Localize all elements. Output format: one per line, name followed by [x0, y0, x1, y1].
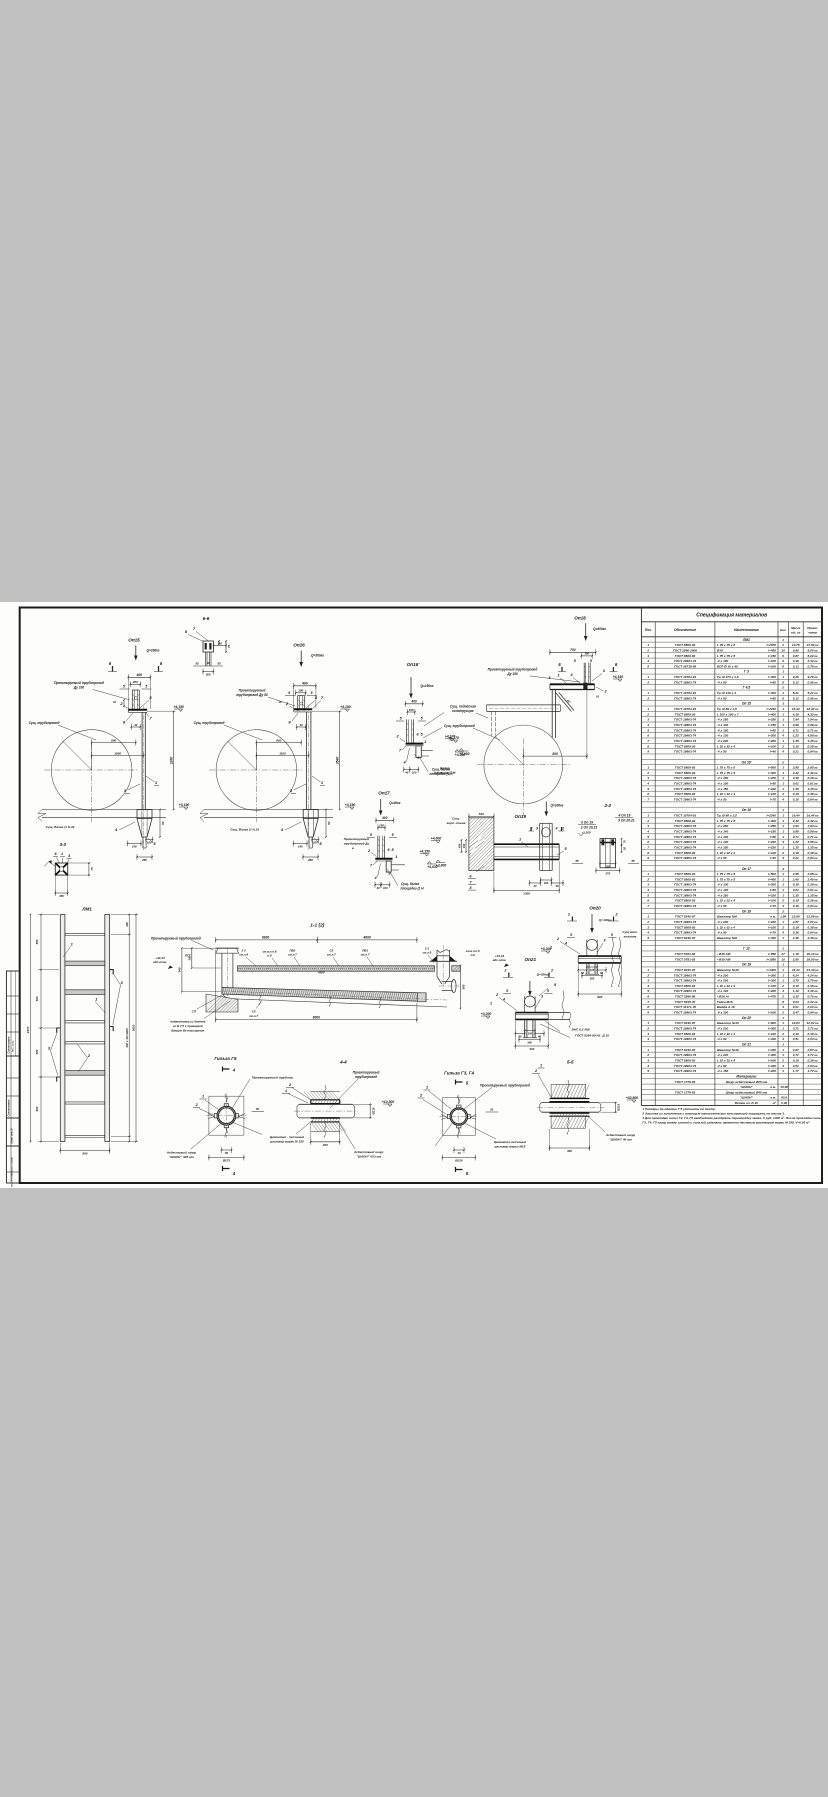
svg-text:Оп16: Оп16 — [293, 643, 305, 648]
svg-text:2: 2 — [495, 993, 498, 997]
svg-text:3: 3 — [647, 718, 649, 722]
svg-text:40: 40 — [375, 886, 380, 890]
svg-text:270: 270 — [604, 872, 610, 876]
svg-text:-6 x 100: -6 x 100 — [717, 1011, 729, 1015]
svg-text:75: 75 — [90, 867, 94, 871]
svg-text:2: 2 — [646, 973, 649, 977]
svg-text:2,95: 2,95 — [792, 872, 799, 876]
1-1 right riser with tee and cap — [436, 950, 438, 977]
Op19 beam channel — [494, 843, 559, 845]
svg-text:1,35 кг: 1,35 кг — [808, 739, 818, 743]
svg-text:l=250: l=250 — [768, 824, 776, 828]
svg-text:500: 500 — [35, 996, 39, 1001]
svg-text:Ø219: Ø219 — [617, 1104, 621, 1111]
svg-text:ГОСТ 19903-74: ГОСТ 19903-74 — [674, 776, 696, 780]
svg-text:Поз.: Поз. — [645, 628, 652, 632]
svg-text:29,00 кг: 29,00 кг — [806, 957, 819, 961]
svg-text:ГОСТ 19903-74: ГОСТ 19903-74 — [674, 798, 696, 802]
svg-text:L 32 x 32 x 4: L 32 x 32 x 4 — [717, 1058, 735, 1062]
svg-text:Q=600кг: Q=600кг — [593, 627, 606, 631]
svg-text:Оп 20: Оп 20 — [742, 1016, 751, 1020]
Op16 pipe stub and cap — [297, 696, 299, 710]
svg-text:4: 4 — [555, 827, 558, 831]
svg-text:Гильза Г3, Г4: Гильза Г3, Г4 — [444, 1071, 474, 1076]
svg-text:4,24 кг: 4,24 кг — [807, 973, 818, 977]
svg-text:0,19: 0,19 — [793, 851, 799, 855]
svg-text:1,54: 1,54 — [780, 915, 786, 919]
svg-text:40: 40 — [533, 884, 537, 888]
svg-text:ГОСТ 8509-93: ГОСТ 8509-93 — [675, 851, 696, 855]
svg-text:3 Оп 20,21: 3 Оп 20,21 — [618, 819, 635, 823]
svg-text:1: 1 — [647, 968, 649, 972]
svg-text:L 32 x 32 x 4: L 32 x 32 x 4 — [717, 899, 735, 903]
svg-text:ГОСТ 8509-93: ГОСТ 8509-93 — [675, 792, 696, 796]
svg-text:1: 1 — [395, 855, 397, 859]
svg-text:l=1300: l=1300 — [766, 968, 776, 972]
svg-text:2,90: 2,90 — [792, 957, 799, 961]
svg-text:4: 4 — [646, 931, 649, 935]
svg-text:3 Для прокладки гильз Г3, Г4,: 3 Для прокладки гильз Г3, Г4, Г5 необход… — [642, 1116, 822, 1120]
svg-text:ГОСТ 8240-97: ГОСТ 8240-97 — [675, 915, 696, 919]
svg-text:2: 2 — [646, 696, 649, 700]
svg-text:l=800: l=800 — [768, 1021, 776, 1025]
svg-text:8: 8 — [782, 680, 784, 684]
svg-text:ГОСТ 2590-88: ГОСТ 2590-88 — [675, 995, 696, 999]
svg-text:650: 650 — [35, 1106, 39, 1111]
svg-text:1: 1 — [647, 675, 649, 679]
svg-text:0,39: 0,39 — [793, 776, 799, 780]
svg-text:1: 1 — [782, 973, 784, 977]
svg-text:Ø219: Ø219 — [455, 1159, 463, 1163]
svg-text:ГОСТ 5264-80-Н1- Д 10: ГОСТ 5264-80-Н1- Д 10 — [575, 1034, 609, 1038]
svg-text:-4 x 200: -4 x 200 — [717, 973, 729, 977]
svg-text:-4 x 100: -4 x 100 — [717, 835, 729, 839]
svg-text:2,40 кг: 2,40 кг — [807, 819, 818, 823]
svg-text:200: 200 — [132, 680, 138, 684]
svg-text:Тр. Ø 89 x 3,5: Тр. Ø 89 x 3,5 — [717, 814, 737, 818]
svg-text:ГОСТ 19903-74: ГОСТ 19903-74 — [674, 829, 696, 833]
svg-text:Вакуум Во насыщения: Вакуум Во насыщения — [171, 1028, 204, 1032]
svg-text:2,87 кг: 2,87 кг — [807, 1048, 818, 1052]
svg-text:2260: 2260 — [169, 757, 173, 766]
svg-text:4: 4 — [646, 723, 649, 727]
svg-text:3: 3 — [647, 979, 649, 983]
svg-text:l=500: l=500 — [768, 872, 776, 876]
G3G4 section flag top — [456, 1080, 463, 1085]
svg-text:L 32 x 32 x 4: L 32 x 32 x 4 — [717, 744, 735, 748]
svg-text:2: 2 — [781, 995, 784, 999]
svg-text:+4,000: +4,000 — [431, 836, 442, 840]
svg-text:2: 2 — [781, 643, 784, 647]
svg-text:Ø18: Ø18 — [717, 648, 723, 652]
1-1 bottom dim — [216, 1019, 417, 1021]
Op18 beam — [550, 683, 595, 685]
svg-text:-4 x 100: -4 x 100 — [717, 659, 729, 663]
svg-text:ГОСТ 19903-74: ГОСТ 19903-74 — [674, 840, 696, 844]
svg-text:ГОСТ 8240-97: ГОСТ 8240-97 — [675, 936, 696, 940]
svg-text:0,19: 0,19 — [793, 899, 799, 903]
svg-text:1: 1 — [782, 712, 784, 716]
view Op16' bracket support — [396, 662, 466, 776]
svg-text:Швеллер №16: Швеллер №16 — [717, 1048, 739, 1052]
svg-text:0,32 кг: 0,32 кг — [808, 1000, 818, 1004]
svg-text:см.л.9: см.л.9 — [423, 951, 432, 955]
svg-text:4: 4 — [781, 734, 784, 738]
svg-text:Проектируемый: Проектируемый — [239, 689, 266, 693]
svg-text:ГОСТ 8240-97: ГОСТ 8240-97 — [675, 1048, 696, 1052]
svg-text:Q=200кг: Q=200кг — [147, 649, 160, 653]
svg-text:Асбестовый шнур: Асбестовый шнур — [166, 1151, 196, 1155]
1-1 lower sloped pipe — [222, 988, 426, 1002]
svg-text:2,07 кг: 2,07 кг — [807, 920, 818, 924]
svg-text:1: 1 — [782, 1048, 784, 1052]
section 1-1 long pipe run — [151, 922, 480, 1032]
svg-text:ГОСТ 19903-74: ГОСТ 19903-74 — [674, 723, 696, 727]
svg-text:12,89 кг: 12,89 кг — [807, 915, 819, 919]
svg-text:l=200: l=200 — [768, 734, 776, 738]
svg-text:0,99: 0,99 — [793, 723, 799, 727]
svg-text:16,44: 16,44 — [792, 814, 800, 818]
svg-text:Масса: Масса — [791, 626, 801, 630]
svg-text:Оп20: Оп20 — [589, 906, 601, 911]
svg-text:400: 400 — [301, 682, 308, 686]
svg-text:l=100: l=100 — [768, 1032, 776, 1036]
svg-text:3: 3 — [647, 1032, 649, 1036]
svg-text:8000: 8000 — [313, 1015, 321, 1019]
svg-text:l=400: l=400 — [768, 819, 776, 823]
svg-text:ед., кг: ед., кг — [791, 631, 801, 635]
svg-text:-4 x 150: -4 x 150 — [717, 787, 729, 791]
svg-text:+3,190: +3,190 — [179, 803, 190, 807]
svg-text:ГОСТ 8509-93: ГОСТ 8509-93 — [675, 872, 696, 876]
svg-text:l=100: l=100 — [768, 1011, 776, 1015]
svg-text:16,44 кг: 16,44 кг — [807, 814, 819, 818]
svg-text:ГОСТ 10704-91: ГОСТ 10704-91 — [674, 691, 696, 695]
svg-text:Ø219: Ø219 — [371, 1107, 375, 1114]
svg-text:ГОСТ 8509-93: ГОСТ 8509-93 — [675, 744, 696, 748]
svg-text:-4 x 130: -4 x 130 — [717, 840, 729, 844]
svg-text:ГОСТ 8240-97: ГОСТ 8240-97 — [675, 968, 696, 972]
svg-text:3540: 3540 — [335, 757, 339, 765]
svg-text:кл В 7,5 с приваркой: кл В 7,5 с приваркой — [173, 1024, 203, 1028]
svg-text:Г 4,5: Г 4,5 — [743, 686, 751, 690]
svg-text:Ø273: Ø273 — [223, 1159, 231, 1163]
svg-text:4,30 кг: 4,30 кг — [807, 712, 818, 716]
svg-text:Q=200кг: Q=200кг — [551, 804, 564, 808]
svg-text:ГОСТ 1779-83: ГОСТ 1779-83 — [675, 1090, 696, 1094]
svg-text:Оп15: Оп15 — [128, 638, 140, 643]
svg-text:-4 x 220: -4 x 220 — [717, 979, 729, 983]
svg-text:1: 1 — [426, 1086, 428, 1090]
svg-text:8: 8 — [647, 1005, 649, 1009]
svg-text:0,39: 0,39 — [793, 883, 799, 887]
svg-text:10: 10 — [781, 648, 785, 652]
svg-text:-4 x 50: -4 x 50 — [717, 856, 727, 860]
svg-text:250: 250 — [141, 858, 147, 862]
svg-text:1,77 кг: 1,77 кг — [808, 1069, 818, 1073]
svg-text:l=400: l=400 — [768, 712, 776, 716]
svg-text:l=100: l=100 — [768, 851, 776, 855]
svg-text:0,71 кг: 0,71 кг — [808, 728, 818, 732]
svg-text:0,99 кг: 0,99 кг — [808, 723, 818, 727]
svg-text:Швеллер №8: Швеллер №8 — [717, 936, 737, 940]
svg-text:1: 1 — [782, 835, 784, 839]
svg-text:1: 1 — [782, 707, 784, 711]
svg-text:560: 560 — [462, 984, 466, 989]
svg-text:см.л.7: см.л.7 — [249, 1014, 258, 1018]
svg-text:l=100: l=100 — [768, 1058, 776, 1062]
svg-text:0,71: 0,71 — [793, 835, 799, 839]
svg-text:3-3: 3-3 — [59, 842, 66, 847]
svg-text:в: в — [352, 846, 354, 850]
svg-text:6300: 6300 — [262, 936, 270, 940]
svg-text:3: 3 — [782, 702, 784, 706]
svg-text:ЛМ1: ЛМ1 — [742, 638, 750, 642]
svg-text:1: 1 — [782, 845, 784, 849]
Op20 beam — [578, 955, 621, 957]
svg-text:5: 5 — [506, 989, 508, 993]
svg-text:ГОСТ 19903-74: ГОСТ 19903-74 — [674, 787, 696, 791]
svg-text:50: 50 — [161, 821, 165, 825]
svg-text:l=220: l=220 — [768, 893, 776, 897]
svg-text:L 75 x 75 x 5: L 75 x 75 x 5 — [717, 643, 735, 647]
svg-text:0,36: 0,36 — [781, 1101, 787, 1105]
svg-text:ГОСТ 19903-74: ГОСТ 19903-74 — [674, 845, 696, 849]
svg-text:площадки (1 Н: площадки (1 Н — [400, 886, 424, 890]
svg-text:l=2570: l=2570 — [766, 643, 776, 647]
svg-text:0,38 кг: 0,38 кг — [808, 984, 818, 988]
svg-text:1: 1 — [61, 852, 63, 856]
svg-text:l=400: l=400 — [768, 771, 776, 775]
svg-text:l=50: l=50 — [770, 888, 776, 892]
svg-text:10,83: 10,83 — [792, 1021, 800, 1025]
svg-text:380: 380 — [188, 955, 192, 960]
svg-text:6: 6 — [782, 659, 784, 663]
svg-text:12,89: 12,89 — [792, 915, 800, 919]
svg-text:Шнур асбестовый Ø40 мм: Шнур асбестовый Ø40 мм — [726, 1090, 768, 1094]
svg-text:1,35: 1,35 — [793, 787, 799, 791]
svg-text:1: 1 — [782, 1053, 784, 1057]
svg-text:16,44 кг: 16,44 кг — [807, 707, 819, 711]
svg-text:9: 9 — [647, 856, 649, 860]
svg-text:+3,190: +3,190 — [345, 803, 356, 807]
svg-text:0,38 кг: 0,38 кг — [808, 899, 818, 903]
svg-text:"ШАОН" 40 мм: "ШАОН" 40 мм — [609, 1138, 632, 1142]
svg-text:7,94: 7,94 — [793, 824, 799, 828]
svg-text:0,39: 0,39 — [793, 659, 799, 663]
svg-text:8: 8 — [470, 886, 472, 890]
svg-text:колонна: колонна — [624, 935, 637, 939]
svg-text:l=150: l=150 — [768, 654, 776, 658]
svg-text:2,95 кг: 2,95 кг — [807, 766, 818, 770]
svg-text:10: 10 — [781, 957, 785, 961]
svg-text:1300: 1300 — [523, 892, 530, 896]
svg-text:Инв. подл.: Инв. подл. — [12, 1040, 15, 1052]
svg-text:3: 3 — [647, 883, 649, 887]
svg-text:ГОСТ 19903-74: ГОСТ 19903-74 — [674, 893, 696, 897]
1-1 upper insulated pipe band — [238, 966, 435, 971]
svg-text:1: 1 — [782, 691, 784, 695]
svg-text:Тр. Ø 89 x 3,5: Тр. Ø 89 x 3,5 — [717, 707, 737, 711]
svg-text:1: 1 — [647, 1048, 649, 1052]
svg-text:9,26 кг: 9,26 кг — [808, 675, 818, 679]
svg-text:Шайба А 16: Шайба А 16 — [717, 1005, 735, 1009]
svg-text:• Ø16 АIII: • Ø16 АIII — [717, 952, 731, 956]
svg-text:1: 1 — [782, 739, 784, 743]
svg-text:0,16: 0,16 — [793, 931, 799, 935]
svg-text:2: 2 — [781, 1058, 784, 1062]
svg-text:2 Оп 20,21: 2 Оп 20,21 — [580, 826, 598, 830]
svg-text:Бетон кл. В 30: Бетон кл. В 30 — [735, 1101, 758, 1105]
svg-text:l=50: l=50 — [770, 680, 776, 684]
svg-text:100: 100 — [584, 652, 589, 656]
svg-text:4,40 кг: 4,40 кг — [807, 989, 818, 993]
svg-text:1 Размеры до обвязки Г 5 уточ: 1 Размеры до обвязки Г 5 уточнить по мес… — [642, 1107, 716, 1111]
svg-text:16: 16 — [278, 700, 282, 704]
svg-text:Швеллер №16: Швеллер №16 — [717, 1021, 739, 1025]
G3G4 section flag bottom — [456, 1167, 463, 1172]
svg-text:ГОСТ 19903-74: ГОСТ 19903-74 — [674, 1053, 696, 1057]
svg-text:Согласовано: Согласовано — [7, 1099, 11, 1116]
svg-text:4: 4 — [781, 931, 784, 935]
svg-text:5: 5 — [647, 664, 649, 668]
svg-text:1: 1 — [782, 888, 784, 892]
svg-text:5: 5 — [647, 893, 649, 897]
svg-text:• Ø16 АI: • Ø16 АI — [717, 995, 729, 999]
right riser black flange — [431, 956, 437, 961]
svg-text:l=220: l=220 — [768, 920, 776, 924]
svg-text:300: 300 — [125, 922, 129, 927]
svg-text:3610: 3610 — [132, 1024, 136, 1031]
svg-text:2: 2 — [781, 1011, 784, 1015]
svg-text:Оп18: Оп18 — [574, 616, 586, 621]
svg-text:0,70 кг: 0,70 кг — [808, 995, 818, 999]
svg-text:l=1950: l=1950 — [766, 957, 776, 961]
5-5 pipe — [542, 1102, 599, 1104]
svg-text:ГОСТ 8509-93: ГОСТ 8509-93 — [675, 984, 696, 988]
svg-text:55: 55 — [631, 859, 635, 863]
svg-text:ГОСТ 19903-74: ГОСТ 19903-74 — [674, 883, 696, 887]
svg-text:ГОСТ 19903-74: ГОСТ 19903-74 — [674, 973, 696, 977]
svg-text:2: 2 — [781, 792, 784, 796]
svg-text:L 100 x 100 x 7: L 100 x 100 x 7 — [717, 712, 739, 716]
svg-text:Ду 150: Ду 150 — [506, 672, 518, 676]
svg-text:L 32 x 32 x 4: L 32 x 32 x 4 — [717, 1032, 735, 1036]
svg-text:8: 8 — [647, 851, 649, 855]
svg-text:ГОСТ 8509-93: ГОСТ 8509-93 — [675, 819, 696, 823]
svg-text:4,24: 4,24 — [792, 973, 799, 977]
svg-text:Проектируемый трубопровод: Проектируемый трубопровод — [54, 681, 104, 685]
Op19 pipe stub vertical — [539, 823, 541, 870]
svg-text:2: 2 — [781, 1032, 784, 1036]
svg-text:1: 1 — [647, 1021, 649, 1025]
svg-text:l=420: l=420 — [768, 1037, 776, 1041]
svg-text:-4 x 100: -4 x 100 — [717, 782, 729, 786]
svg-text:1: 1 — [782, 638, 784, 642]
svg-text:6: 6 — [647, 734, 649, 738]
svg-text:1: 1 — [782, 872, 784, 876]
svg-text:4200: 4200 — [317, 971, 325, 975]
svg-text:l=250: l=250 — [768, 718, 776, 722]
svg-text:27,50 кг: 27,50 кг — [806, 643, 819, 647]
svg-text:0,19: 0,19 — [793, 925, 799, 929]
svg-text:1: 1 — [782, 883, 784, 887]
svg-text:l=200: l=200 — [768, 840, 776, 844]
svg-text:Оп 15: Оп 15 — [742, 702, 751, 706]
svg-text:2 Засыпка из заполнения с помо: 2 Засыпка из заполнения с помощью металл… — [641, 1111, 785, 1115]
svg-text:Спецификация материалов: Спецификация материалов — [696, 612, 767, 619]
svg-text:5: 5 — [647, 728, 649, 732]
ladder rungs — [65, 933, 105, 935]
svg-text:0,38 кг: 0,38 кг — [808, 792, 818, 796]
svg-text:1: 1 — [424, 740, 426, 744]
svg-text:7,94: 7,94 — [793, 718, 799, 722]
svg-text:1: 1 — [540, 1064, 542, 1068]
svg-text:1,35: 1,35 — [793, 739, 799, 743]
svg-text:20: 20 — [623, 847, 627, 851]
svg-text:100: 100 — [528, 1032, 533, 1036]
svg-text:ГОСТ 8509-93: ГОСТ 8509-93 — [675, 899, 696, 903]
svg-text:3,70 кг: 3,70 кг — [808, 979, 818, 983]
svg-text:1: 1 — [782, 814, 784, 818]
svg-text:0,16: 0,16 — [793, 798, 799, 802]
svg-text:800: 800 — [276, 738, 281, 742]
svg-text:4: 4 — [781, 904, 784, 908]
svg-text:5: 5 — [647, 989, 649, 993]
svg-text:l=2240: l=2240 — [766, 814, 776, 818]
svg-text:5,21: 5,21 — [793, 691, 799, 695]
svg-text:ГОСТ 8509-93: ГОСТ 8509-93 — [675, 766, 696, 770]
svg-text:2: 2 — [556, 937, 559, 941]
svg-text:40: 40 — [299, 723, 304, 727]
ladder wall anchors — [110, 970, 114, 975]
svg-text:l=50: l=50 — [770, 728, 776, 732]
svg-text:см.л.7: см.л.7 — [288, 953, 297, 957]
svg-text:Материалы: Материалы — [736, 1074, 756, 1078]
svg-text:1,35: 1,35 — [793, 845, 799, 849]
svg-text:2: 2 — [646, 712, 649, 716]
svg-text:41,34: 41,34 — [791, 968, 800, 972]
svg-text:0,19: 0,19 — [793, 1032, 799, 1036]
svg-text:абс.отм.: абс.отм. — [153, 960, 167, 964]
svg-text:1: 1 — [557, 674, 559, 678]
svg-text:150: 150 — [409, 708, 414, 712]
svg-text:7: 7 — [647, 904, 649, 908]
G5 section flag top — [223, 1067, 230, 1072]
svg-text:+4,150: +4,150 — [419, 849, 430, 853]
svg-text:ГОСТ 19903-74: ГОСТ 19903-74 — [674, 856, 696, 860]
svg-text:9: 9 — [647, 750, 649, 754]
svg-text:ГОСТ 19903-74: ГОСТ 19903-74 — [674, 931, 696, 935]
svg-text:5: 5 — [647, 835, 649, 839]
svg-text:510: 510 — [479, 812, 484, 816]
svg-text:400: 400 — [381, 816, 388, 820]
svg-text:5: 5 — [311, 691, 313, 695]
svg-text:1: 1 — [782, 766, 784, 770]
ladder left dims — [40, 915, 42, 1142]
svg-text:-4 x 120: -4 x 120 — [717, 989, 729, 993]
svg-text:"ШАОН": "ШАОН" — [740, 1085, 753, 1089]
svg-text:БСР Ø 10 x 40: БСР Ø 10 x 40 — [717, 664, 738, 668]
svg-text:L 75 x 75 x 5: L 75 x 75 x 5 — [717, 872, 735, 876]
svg-text:конструкция: конструкция — [452, 709, 473, 713]
svg-text:Оп16': Оп16' — [407, 662, 420, 667]
svg-text:ГОСТ 19903-74: ГОСТ 19903-74 — [674, 888, 696, 892]
Op16 column — [306, 712, 308, 810]
svg-text:4: 4 — [502, 998, 505, 1002]
svg-text:п.9: п.9 — [267, 954, 272, 958]
svg-text:Проектируемый трубопр: Проектируемый трубопр — [252, 1076, 293, 1080]
